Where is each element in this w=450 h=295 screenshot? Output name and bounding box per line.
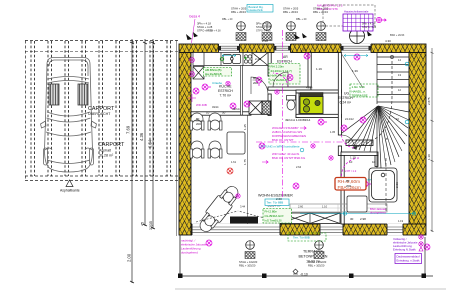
magenta symbol chain right xyxy=(419,235,423,251)
svg-text:RH 2.20m: RH 2.20m xyxy=(271,65,285,69)
wall kitchen right lower xyxy=(268,94,271,116)
wall kitchen/living divider xyxy=(191,112,251,115)
carport plank hatch: pairs of dashed vertical lines xyxy=(31,41,171,176)
svg-text:BSD OG UNTZT: BSD OG UNTZT xyxy=(272,138,294,142)
window top 2 xyxy=(274,44,291,53)
magenta extra speckles xyxy=(236,90,333,198)
svg-text:WD 40B: WD 40B xyxy=(196,103,207,107)
svg-text:STAH + 102/20: STAH + 102/20 xyxy=(239,260,258,264)
car hood lines xyxy=(46,132,91,136)
svg-text:ESTRICH: ESTRICH xyxy=(277,60,292,64)
extra interior marks xyxy=(212,86,404,224)
svg-text:Haustechnik: Haustechnik xyxy=(249,8,264,12)
svg-text:RBL + 105/20: RBL + 105/20 xyxy=(239,264,256,268)
door arc stair hall xyxy=(342,135,355,148)
outlet symbols: circle with X and tail xyxy=(202,84,211,90)
svg-text:32|35: 32|35 xyxy=(149,221,153,230)
green box stair xyxy=(350,84,378,97)
stair walkline xyxy=(352,56,392,148)
wall stair hall left upper xyxy=(338,53,341,136)
svg-text:49/14: 49/14 xyxy=(212,105,219,109)
kitchen appliance X xyxy=(252,53,268,66)
svg-text:1.25: 1.25 xyxy=(243,124,247,130)
svg-text:200: 200 xyxy=(196,122,201,126)
svg-text:STAH + 20/5: STAH + 20/5 xyxy=(313,7,329,11)
svg-text:1.9m STK: 1.9m STK xyxy=(352,85,365,89)
chair 2 xyxy=(208,113,222,130)
svg-text:50: 50 xyxy=(222,111,226,115)
interior dim line xyxy=(247,116,249,225)
svg-text:BSD OG UNTZT BSD.KG: BSD OG UNTZT BSD.KG xyxy=(272,156,306,160)
dining table xyxy=(227,132,245,154)
svg-text:durchgehend: durchgehend xyxy=(181,251,198,255)
svg-text:durchgehend: durchgehend xyxy=(370,211,386,215)
wall stub stair xyxy=(375,155,378,166)
terrace posts xyxy=(178,274,183,279)
dimension line 7.69 xyxy=(130,39,134,283)
wall shower bottom xyxy=(296,114,342,117)
svg-text:2.93: 2.93 xyxy=(395,182,399,188)
exterior line left xyxy=(176,40,178,236)
window bottom 2 xyxy=(320,224,343,236)
dimension line 4.36 xyxy=(143,39,147,226)
door arc AR xyxy=(273,72,288,87)
svg-text:Ha 2te60/LB: Ha 2te60/LB xyxy=(205,72,222,76)
kitchen sink xyxy=(223,55,241,64)
svg-text:KÜCHE: KÜCHE xyxy=(219,85,232,89)
svg-text:RBL + 20: RBL + 20 xyxy=(222,18,233,21)
svg-text:RBL + 20/43: RBL + 20/43 xyxy=(231,10,246,14)
bottom wall xyxy=(191,224,426,235)
svg-text:STAH + 102/20: STAH + 102/20 xyxy=(308,260,327,264)
vent symbol cluster 3 xyxy=(286,22,296,41)
svg-text:49/14: 49/14 xyxy=(232,107,240,111)
svg-text:Entwässg. n.Statik: Entwässg. n.Statik xyxy=(397,259,421,263)
svg-text:80: 80 xyxy=(196,117,200,121)
drain symbol 1 xyxy=(245,241,255,259)
vent symbol cluster 2 xyxy=(236,22,246,41)
green marks sink xyxy=(220,57,224,61)
sliding door dashes xyxy=(196,211,280,222)
svg-text:24.2/12: 24.2/12 xyxy=(345,117,354,121)
carport boundary dashed bottom double xyxy=(25,176,179,181)
Asphaltkante marker xyxy=(60,180,80,193)
exterior dim line right xyxy=(431,48,434,232)
svg-text:Asphalt: Asphalt xyxy=(99,149,111,153)
window bottom 3 xyxy=(387,224,403,236)
svg-text:FH 2.80e: FH 2.80e xyxy=(265,210,278,214)
svg-text:39.28 m²: 39.28 m² xyxy=(99,154,114,158)
hatched new-wall threshold xyxy=(346,140,373,146)
chair 1 xyxy=(190,113,204,130)
svg-text:1.19: 1.19 xyxy=(316,67,322,71)
terrace door window bottom 1 xyxy=(192,224,280,236)
svg-text:1.05: 1.05 xyxy=(330,130,336,134)
svg-text:2.64: 2.64 xyxy=(296,165,302,169)
cyan marks right wall xyxy=(405,120,409,124)
car mirrors xyxy=(41,121,97,128)
wall AR bottom xyxy=(268,87,311,90)
dashed partition xyxy=(385,158,387,212)
terrace bottom edge xyxy=(178,275,433,277)
svg-text:Erhebung N.Statik: Erhebung N.Statik xyxy=(393,248,416,252)
svg-text:7.70 m²: 7.70 m² xyxy=(220,94,232,98)
svg-text:80: 80 xyxy=(253,76,257,80)
svg-text:BSD Jalousie: BSD Jalousie xyxy=(370,207,387,211)
cyan line bottom xyxy=(300,213,415,215)
wall shower top xyxy=(296,90,342,93)
bathtub xyxy=(369,168,397,202)
carport label 1 xyxy=(88,106,125,158)
svg-text:1.10: 1.10 xyxy=(322,205,328,209)
svg-text:2.40: 2.40 xyxy=(255,57,261,61)
svg-text:STAH + 4.28: STAH + 4.28 xyxy=(362,26,377,29)
svg-text:24.20/A (1.12.7): 24.20/A (1.12.7) xyxy=(271,69,292,73)
svg-text:OL-BNFA GO!: OL-BNFA GO! xyxy=(265,214,284,218)
svg-text:2.60: 2.60 xyxy=(298,205,304,209)
carport boundary dashed left edge xyxy=(25,41,27,181)
dimension line 6.54 xyxy=(151,39,155,229)
red circle living xyxy=(227,168,233,174)
svg-text:STAH + 20/5: STAH + 20/5 xyxy=(283,7,299,11)
svg-text:2.00: 2.00 xyxy=(127,253,132,262)
car wheels xyxy=(44,148,48,165)
svg-text:2.87 / 1.2: 2.87 / 1.2 xyxy=(345,169,357,173)
cyan box terr door inside xyxy=(265,199,289,206)
svg-text:80: 80 xyxy=(346,179,350,183)
svg-text:2.60: 2.60 xyxy=(276,197,282,201)
wall AR right xyxy=(308,53,311,88)
wall stair hall bottom xyxy=(341,152,378,155)
svg-text:Urlaube: Urlaube xyxy=(212,81,223,85)
svg-text:ÜBERDACHT: ÜBERDACHT xyxy=(88,112,111,116)
level mark xyxy=(293,269,298,274)
svg-text:6.24 m²: 6.24 m² xyxy=(340,101,352,105)
svg-text:1.75: 1.75 xyxy=(243,159,247,165)
magenta door arcs xyxy=(342,158,360,176)
green box kitchen xyxy=(204,68,232,77)
svg-text:7.69: 7.69 xyxy=(126,125,131,134)
black arrows mid xyxy=(294,33,307,39)
wall kitchen right upper xyxy=(268,53,271,77)
left wall fixtures/marks xyxy=(188,58,196,102)
svg-text:RBL + 20/43: RBL + 20/43 xyxy=(283,10,298,14)
chimney shaft (dark hatch) xyxy=(262,101,271,114)
plot faint line xyxy=(175,288,446,290)
svg-text:STAH + 20/5: STAH + 20/5 xyxy=(231,7,247,11)
window top 1 xyxy=(219,44,240,53)
dimension chain top interior xyxy=(196,58,272,71)
svg-text:IvS 7es6/LSI: IvS 7es6/LSI xyxy=(265,219,282,223)
svg-text:AR: AR xyxy=(283,55,288,59)
svg-text:TERRASSE: TERRASSE xyxy=(352,94,368,98)
svg-text:200: 200 xyxy=(253,81,258,85)
drain symbol 2 xyxy=(314,241,324,259)
svg-text:STPO + 4.38: STPO + 4.38 xyxy=(256,30,271,33)
svg-text:200: 200 xyxy=(346,184,351,188)
svg-text:30: 30 xyxy=(350,217,354,221)
car windshield xyxy=(47,112,90,116)
washbasin box xyxy=(347,196,367,212)
magenta axis horizontal xyxy=(256,141,345,143)
svg-text:3Pfn + 4.18: 3Pfn + 4.18 xyxy=(197,22,211,26)
svg-text:RBL + 105/20: RBL + 105/20 xyxy=(308,264,325,268)
wall shower left xyxy=(296,93,299,118)
stair section diagonal xyxy=(341,53,363,88)
svg-text:1.19: 1.19 xyxy=(398,219,404,223)
carport boundary dashed top xyxy=(25,40,179,42)
svg-text:10: 10 xyxy=(372,160,376,164)
green dashed box terrace door xyxy=(288,233,326,241)
magenta axis vertical xyxy=(282,30,284,205)
rotated table with chairs xyxy=(195,182,242,236)
magenta target symbol xyxy=(376,17,386,22)
top wall xyxy=(179,44,426,53)
svg-text:45: 45 xyxy=(141,222,145,226)
svg-text:STAH + 4.28: STAH + 4.28 xyxy=(197,25,213,29)
toilet xyxy=(287,96,296,111)
green box AR xyxy=(269,64,300,85)
green box living xyxy=(263,209,292,224)
svg-text:49/14 A 1.DO83/14: 49/14 A 1.DO83/14 xyxy=(285,118,311,122)
terrace left edge xyxy=(179,235,181,276)
dashed box top right xyxy=(323,5,375,26)
washbasin counter (highlighted) xyxy=(300,93,323,114)
svg-text:ESTRICH: ESTRICH xyxy=(218,89,233,93)
svg-text:10: 10 xyxy=(206,111,210,115)
wall bath room left xyxy=(341,155,344,224)
chair 3 xyxy=(190,141,204,158)
svg-text:6.54: 6.54 xyxy=(148,139,153,148)
kitchen outlet mark xyxy=(226,81,230,85)
svg-text:Terr. Tür 88B: Terr. Tür 88B xyxy=(293,236,310,240)
svg-text:UG: UG xyxy=(344,92,349,96)
svg-text:1.39: 1.39 xyxy=(352,69,358,73)
gray counter right xyxy=(290,204,387,212)
purple grid table xyxy=(343,14,373,31)
svg-text:RBL + 20: RBL + 20 xyxy=(296,18,307,21)
svg-text:4.36: 4.36 xyxy=(139,132,144,141)
svg-text:2.98: 2.98 xyxy=(360,217,366,221)
svg-text:BSD + 20/43: BSD + 20/43 xyxy=(390,34,405,37)
big compass circle xyxy=(350,29,365,44)
window top 3 xyxy=(341,44,371,53)
svg-text:Gesa 4: Gesa 4 xyxy=(189,15,200,19)
vent symbol cluster 1 xyxy=(262,22,272,41)
kitchen counter xyxy=(193,53,268,66)
svg-text:5Pln + 4.18: 5Pln + 4.18 xyxy=(256,22,270,26)
svg-text:10: 10 xyxy=(349,160,353,164)
svg-text:1.48: 1.48 xyxy=(215,48,221,52)
svg-text:STPO + 4.38: STPO + 4.38 xyxy=(206,30,221,33)
carport boundary dashed second line xyxy=(25,51,179,53)
kitchen hob xyxy=(244,55,251,63)
wall stair hall left lower xyxy=(338,146,341,156)
door arc kitchen xyxy=(251,77,268,94)
svg-text:3.44: 3.44 xyxy=(240,205,246,209)
cupboard X box xyxy=(249,101,262,114)
extra tiny top texts xyxy=(206,18,405,37)
svg-text:-0.10: -0.10 xyxy=(300,273,308,277)
purple note bottom right xyxy=(393,237,422,264)
svg-text:4.30: 4.30 xyxy=(385,39,391,43)
black arrows left corner xyxy=(186,32,198,40)
svg-text:2.875: 2.875 xyxy=(427,97,431,105)
vent symbol cluster 4 xyxy=(316,22,326,41)
svg-text:2.40: 2.40 xyxy=(262,39,268,43)
stair tread numbers xyxy=(363,58,401,144)
X sideboard low window xyxy=(280,213,340,224)
chair 4 xyxy=(208,141,222,158)
svg-text:1.61: 1.61 xyxy=(231,160,237,164)
svg-text:1.19: 1.19 xyxy=(350,156,356,160)
cyan box top xyxy=(247,5,273,13)
car (top view) in carport xyxy=(41,58,97,173)
cyan window arrows xyxy=(222,54,236,56)
svg-text:1.10: 1.10 xyxy=(427,154,431,160)
stair extra winders xyxy=(353,106,409,167)
left wall xyxy=(179,53,191,236)
svg-text:Haustechnikzentrale: Haustechnikzentrale xyxy=(344,10,369,14)
svg-text:RBL + 20/43: RBL + 20/43 xyxy=(313,10,328,14)
terrace right edge xyxy=(424,237,426,276)
svg-text:Terr. Tür 88B: Terr. Tür 88B xyxy=(267,201,284,205)
wall kitchen inner half xyxy=(241,64,243,115)
black sideboard xyxy=(230,217,258,224)
kitchen wall cabinet xyxy=(193,67,204,80)
svg-text:CARPORT: CARPORT xyxy=(98,142,125,148)
svg-text:STAH + 4.28: STAH + 4.28 xyxy=(256,25,272,29)
right wall xyxy=(409,53,426,225)
svg-text:1.18: 1.18 xyxy=(300,48,306,52)
car seats xyxy=(49,84,88,105)
svg-text:LÜFTUNG m.WRG kontrollierte: LÜFTUNG m.WRG kontrollierte xyxy=(259,145,300,149)
svg-text:49/14: 49/14 xyxy=(306,86,313,90)
svg-text:Asphaltkante: Asphaltkante xyxy=(60,189,80,193)
